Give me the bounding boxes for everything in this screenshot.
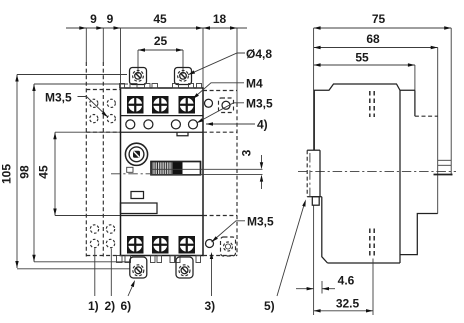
dimension 105 — [0, 75, 130, 269]
side body top profile — [314, 84, 415, 90]
side body left edge — [313, 90, 315, 150]
dimension 55 — [314, 51, 415, 67]
svg-text:M3,5: M3,5 — [45, 91, 72, 105]
test openings circle row — [126, 120, 198, 129]
callout M3,5 bottom right — [212, 215, 275, 243]
svg-text:25: 25 — [154, 34, 168, 48]
body horizontal line lower — [121, 215, 204, 217]
centre line side view — [298, 171, 456, 173]
svg-text:2): 2) — [105, 299, 116, 313]
svg-text:4): 4) — [257, 118, 268, 132]
callout M4 — [193, 77, 263, 100]
svg-text:68: 68 — [366, 32, 380, 46]
svg-text:3): 3) — [205, 299, 216, 313]
svg-text:45: 45 — [153, 12, 167, 26]
svg-text:9: 9 — [107, 12, 114, 26]
hidden edge dashed — [415, 115, 438, 117]
slider guide lines extending right — [151, 169, 263, 174]
svg-text:18: 18 — [213, 12, 227, 26]
main terminals bottom row (3x) — [127, 236, 195, 254]
svg-text:32.5: 32.5 — [336, 297, 360, 311]
right step profile — [400, 214, 438, 255]
svg-text:9: 9 — [90, 12, 97, 26]
callout M3,5 right — [197, 97, 274, 124]
lower left edge and chamfer — [322, 197, 328, 263]
top mounting lug right — [175, 68, 192, 85]
side body right edge — [399, 90, 401, 263]
bottom mounting lug right — [176, 257, 193, 278]
small tab below knob — [127, 167, 133, 172]
DIN rail section lines — [434, 160, 453, 174]
dimension 3 — [240, 149, 264, 189]
side view extension verticals — [314, 28, 452, 315]
dimension 68 — [314, 32, 438, 49]
dimension 75 — [314, 12, 452, 30]
top feet tabs — [120, 84, 202, 89]
aux terminals bottom-left 2x2 — [90, 225, 114, 248]
dimension line 9-9-45-18 — [66, 12, 247, 30]
svg-text:75: 75 — [372, 12, 386, 26]
svg-text:45: 45 — [37, 165, 51, 179]
svg-text:4.6: 4.6 — [338, 274, 355, 288]
extension lines top — [86, 28, 237, 103]
svg-text:M3,5: M3,5 — [247, 215, 274, 229]
bottom edge — [328, 262, 401, 264]
svg-text:55: 55 — [355, 51, 369, 65]
right aux bottom terminals — [206, 237, 236, 256]
centre line front view — [111, 173, 150, 175]
bottom feet tabs — [117, 256, 201, 263]
DIN clip — [307, 150, 322, 205]
dimension 4.6 — [296, 274, 355, 294]
dimension 25 — [138, 34, 183, 74]
dimension 32.5 — [314, 259, 373, 316]
bottom mounting lug left — [130, 257, 147, 278]
aux terminals top-left 2x2 — [90, 99, 116, 122]
main body outline — [121, 88, 204, 256]
main terminals top row (3x) — [127, 96, 195, 114]
callout 4) — [206, 118, 268, 132]
handle slot lower (dashed) — [370, 229, 374, 258]
callout 6) — [121, 280, 136, 313]
top mounting lug left — [130, 68, 147, 85]
dimension 45 vertical — [37, 132, 121, 215]
callout 2) — [105, 249, 116, 314]
callout O4,8 — [188, 47, 272, 75]
indicator window — [131, 192, 144, 199]
label plate — [121, 203, 158, 214]
callout 5) — [264, 200, 306, 314]
svg-text:105: 105 — [0, 164, 14, 184]
right aux top terminals — [205, 98, 234, 113]
svg-text:5): 5) — [264, 299, 275, 313]
svg-text:6): 6) — [121, 299, 132, 313]
callout 3) — [205, 252, 216, 313]
slider switch — [151, 162, 201, 175]
rotary knob — [125, 143, 147, 165]
aux contact block left (dashed outline) — [86, 62, 120, 257]
svg-text:M3,5: M3,5 — [246, 97, 273, 111]
callout M3,5 left — [45, 91, 108, 118]
svg-text:Ø4,8: Ø4,8 — [246, 47, 272, 61]
svg-text:98: 98 — [18, 165, 32, 179]
body horizontal line with notch — [121, 132, 204, 136]
callout 1) — [88, 249, 99, 314]
svg-text:1): 1) — [88, 299, 99, 313]
handle slot upper (dashed) — [370, 91, 374, 117]
aux block right (dashed) — [203, 91, 237, 256]
dimension 98 — [18, 84, 131, 262]
svg-text:M4: M4 — [246, 77, 263, 91]
body horizontal line under terminals — [121, 115, 204, 117]
front edge below 55 — [414, 90, 416, 116]
svg-text:3: 3 — [240, 149, 254, 156]
